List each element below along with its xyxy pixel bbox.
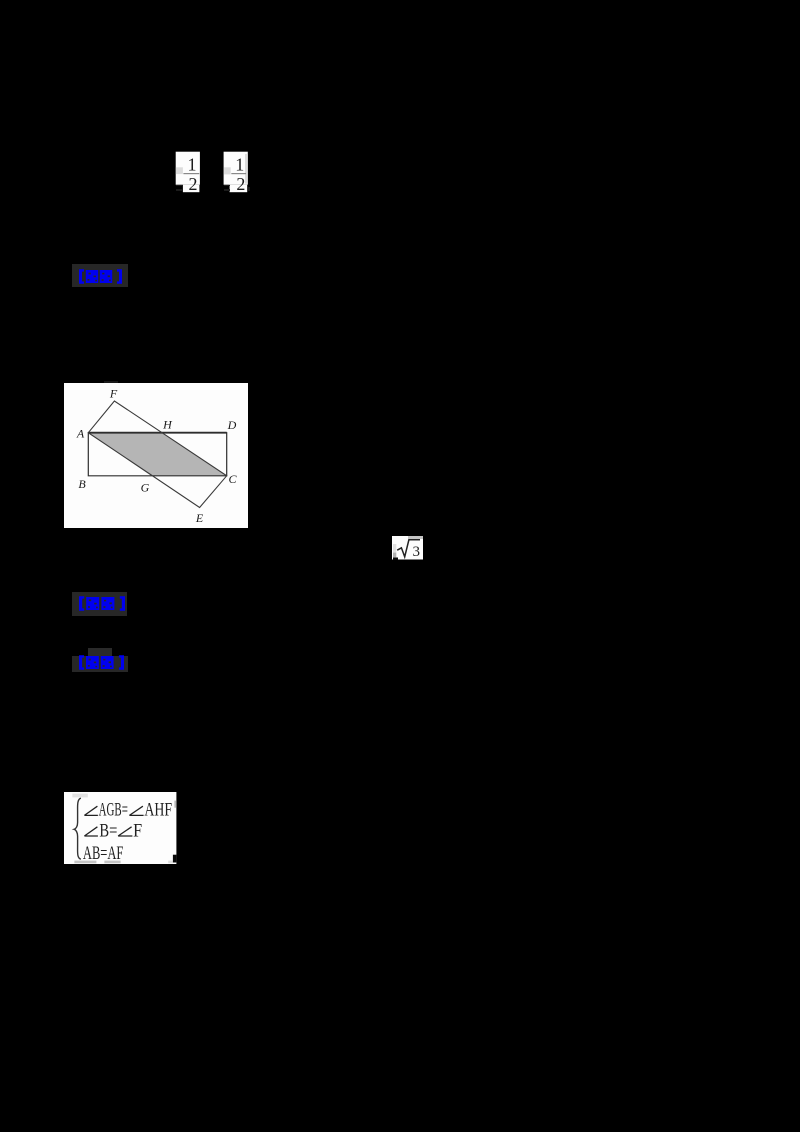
svg-text:A: A (76, 427, 85, 441)
equals sign 2 (faint) (224, 185, 230, 187)
svg-text:B: B (78, 477, 86, 491)
svg-text:B=: B= (99, 820, 117, 841)
line 1 : angle AGB = angle AHF (84, 806, 98, 815)
rectangle ABCD (88, 433, 226, 476)
blue label 1 (72, 264, 128, 287)
svg-text:D: D (227, 418, 237, 432)
equation system image (64, 792, 177, 865)
svg-text:F: F (109, 387, 118, 401)
svg-text:G: G (141, 481, 150, 495)
svg-text:AB=AF: AB=AF (82, 843, 123, 864)
svg-text:3: 3 (412, 544, 420, 560)
brace (74, 798, 81, 859)
svg-text:AHF: AHF (144, 800, 172, 821)
parallelogram AFCE (88, 401, 226, 508)
svg-text:E: E (195, 511, 204, 525)
svg-text:1: 1 (235, 154, 244, 174)
equals sign 1 (faint) (176, 185, 183, 187)
comma after fraction 2 (faint) (248, 187, 250, 191)
svg-text:2: 2 (189, 174, 198, 193)
line 2 : angle B = angle F (84, 827, 98, 836)
svg-text:H: H (162, 418, 173, 432)
blue label 2 (72, 592, 127, 616)
fraction image 1 (1/2) (175, 151, 201, 193)
svg-text:AGB=: AGB= (98, 800, 127, 821)
fraction image 2 (1/2) (223, 151, 250, 193)
shaded parallelogram AHCG (88, 433, 226, 476)
geometry figure (64, 383, 248, 528)
blue label 3 (72, 656, 128, 672)
faint smudge above figure box (104, 381, 118, 383)
svg-text:F: F (133, 820, 142, 841)
svg-text:2: 2 (236, 174, 245, 193)
svg-text:1: 1 (188, 154, 197, 174)
sqrt(3) image (392, 536, 424, 560)
svg-text:C: C (228, 472, 237, 486)
